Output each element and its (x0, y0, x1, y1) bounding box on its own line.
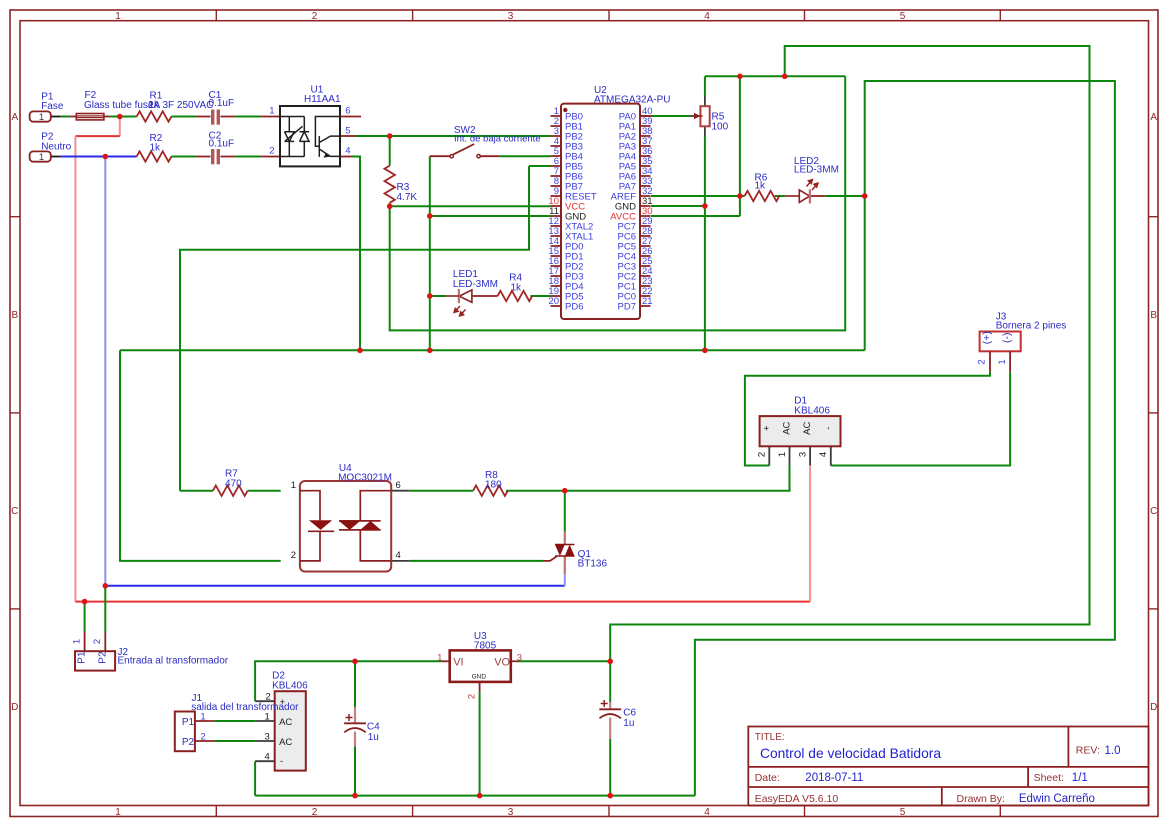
frame column ticks bottom (216, 806, 1000, 817)
svg-text:2: 2 (467, 694, 478, 699)
svg-text:B: B (1150, 310, 1157, 321)
resistor R4 (498, 273, 533, 302)
svg-text:180: 180 (485, 479, 502, 490)
fuse F2 (76, 114, 104, 120)
svg-text:20: 20 (548, 296, 559, 307)
svg-text:3: 3 (517, 652, 522, 663)
wire net U1pin5 to U2 PB2 (340, 135, 551, 137)
wire net SW2 to PB4 (480, 155, 550, 157)
U2 pin stubs (551, 116, 651, 306)
frame row letters right (1150, 112, 1157, 713)
LED2 (785, 156, 839, 204)
junction C6 bottom (607, 793, 613, 799)
svg-text:4: 4 (818, 452, 829, 457)
junction C4 bottom (352, 793, 358, 799)
svg-text:D: D (1150, 702, 1157, 713)
resistor R8 (473, 470, 508, 496)
svg-text:(-): (-) (1001, 332, 1013, 343)
svg-text:2: 2 (312, 807, 318, 818)
svg-text:1: 1 (269, 106, 274, 117)
svg-text:2018-07-11: 2018-07-11 (805, 772, 863, 784)
svg-text:Glass tube fuse: Glass tube fuse (84, 100, 154, 111)
svg-text:0.1uF: 0.1uF (209, 98, 235, 109)
svg-text:KBL406: KBL406 (794, 406, 830, 417)
svg-text:21: 21 (642, 296, 653, 307)
svg-text:4: 4 (265, 752, 270, 763)
svg-text:2: 2 (977, 359, 988, 364)
title block texts (755, 732, 1121, 805)
wire net U4 pin4 gate (391, 557, 556, 561)
svg-text:1: 1 (39, 112, 44, 123)
resistor R7 (213, 469, 248, 496)
svg-text:3: 3 (797, 452, 808, 457)
wire net GND left drop to U4 pin2 (120, 350, 281, 561)
svg-text:KBL406: KBL406 (272, 680, 308, 691)
svg-text:AC: AC (279, 717, 292, 728)
svg-text:P2: P2 (182, 737, 195, 748)
svg-text:470: 470 (225, 479, 242, 490)
wire net U3 VO to C6 and +5V riser (511, 661, 610, 795)
svg-text:Fase: Fase (41, 101, 64, 112)
svg-text:AC: AC (279, 737, 292, 748)
wire net D1 pin3 stub (809, 446, 811, 465)
svg-text:2: 2 (757, 452, 768, 457)
svg-text:Sheet:: Sheet: (1034, 772, 1064, 784)
junction LED1 (427, 293, 433, 299)
resistor R3 (385, 166, 418, 203)
frame column ticks top (216, 10, 1000, 21)
svg-text:Drawn By:: Drawn By: (957, 793, 1005, 805)
svg-text:100: 100 (712, 122, 729, 133)
svg-text:C: C (1150, 506, 1157, 517)
wire net R5 branch (651, 76, 705, 350)
svg-text:VO: VO (494, 657, 510, 669)
svg-text:1: 1 (115, 807, 121, 818)
wire net J3 pin1 to D1 pin4 (831, 372, 1010, 466)
svg-text:LED-3MM: LED-3MM (453, 279, 498, 290)
wire net C4 branch (354, 661, 356, 795)
wire net AREF R6 LED2 (651, 195, 865, 197)
svg-text:-: - (280, 756, 283, 767)
wire net GND right riser (695, 81, 1115, 796)
regulator U3 7805 (437, 631, 522, 699)
U1 pin stubs (340, 116, 361, 118)
wire net GND pin11 (430, 215, 551, 217)
junction GND rail x705 (702, 348, 708, 354)
bridge rectifier D2 KBL406 (265, 671, 309, 771)
wire net GND rail y350 (120, 349, 865, 351)
svg-text:4.7K: 4.7K (397, 192, 418, 203)
svg-text:4: 4 (396, 550, 401, 561)
label J1 (191, 693, 299, 713)
junction Neutro J2 (103, 583, 109, 589)
capacitor C1 (209, 90, 235, 125)
wire net D2 pin2 to U3 VI (255, 661, 450, 701)
wire net U3 GND pin2 (479, 682, 481, 796)
svg-text:2: 2 (200, 732, 205, 743)
svg-text:Entrada al transformador: Entrada al transformador (118, 656, 229, 667)
optocoupler U1 H11AA1 (269, 84, 361, 166)
svg-text:1k: 1k (511, 283, 523, 294)
svg-text:H11AA1: H11AA1 (304, 94, 341, 105)
connector J1 salida del transformador (175, 712, 206, 752)
wire net R8 to D1 pin1 (391, 446, 789, 490)
svg-text:(+): (+) (981, 331, 993, 344)
svg-text:AC: AC (802, 421, 813, 434)
potentiometer R5 (694, 106, 729, 132)
svg-text:2: 2 (291, 550, 296, 561)
svg-text:MOC3021M: MOC3021M (338, 472, 392, 483)
svg-text:1: 1 (291, 480, 296, 491)
frame row ticks right (1149, 217, 1159, 609)
wire net Q1 MT1 blue (564, 574, 566, 586)
title block (748, 727, 1148, 806)
svg-text:LED-3MM: LED-3MM (794, 165, 839, 176)
svg-text:1: 1 (39, 152, 44, 163)
resistor R1 (137, 91, 172, 122)
svg-text:AC: AC (782, 421, 793, 434)
wire net D2 pin4 drop (255, 761, 275, 795)
junction R3 bottom (387, 204, 393, 210)
capacitor C2 (209, 131, 235, 165)
junction GND rail x360 (357, 348, 363, 354)
svg-text:5: 5 (900, 807, 906, 818)
svg-text:4: 4 (704, 807, 710, 818)
svg-text:D: D (11, 702, 18, 713)
svg-text:1: 1 (997, 359, 1008, 364)
svg-text:4: 4 (345, 146, 350, 157)
wire net PA0 wiper (640, 115, 697, 117)
svg-text:6: 6 (396, 480, 401, 491)
frame column numbers bottom (115, 807, 906, 818)
svg-text:-: - (823, 427, 834, 430)
junction AREF x739 (737, 193, 743, 199)
svg-text:1k: 1k (149, 100, 161, 111)
svg-text:Int. de baja corriente: Int. de baja corriente (454, 134, 541, 145)
wire net Fase red drop to rail (75, 117, 810, 602)
svg-text:1k: 1k (755, 180, 767, 191)
junction U3 GND bottom (477, 793, 483, 799)
optotriac U4 MOC3021M (291, 463, 401, 572)
wire net SW2 left vertical (430, 156, 450, 350)
svg-text:A: A (11, 112, 18, 123)
wire net VCC top rail (610, 46, 1089, 661)
wire net Q1 MT2 (564, 491, 566, 532)
svg-text:1u: 1u (368, 732, 379, 743)
svg-text:EasyEDA V5.6.10: EasyEDA V5.6.10 (755, 793, 839, 805)
junction Fase J2 (82, 599, 88, 605)
junction GND rail x429 (427, 348, 433, 354)
svg-text:5: 5 (345, 125, 350, 136)
svg-text:1: 1 (265, 712, 270, 723)
svg-text:TITLE:: TITLE: (755, 732, 785, 743)
wire J2 pin2 drop green (104, 586, 106, 632)
svg-text:1: 1 (71, 639, 82, 644)
svg-text:7805: 7805 (474, 640, 497, 651)
svg-text:VI: VI (453, 657, 463, 669)
resistor R2 (137, 133, 172, 162)
svg-text:P1: P1 (182, 717, 195, 728)
junction R8 Q1 (562, 488, 568, 494)
wire J2 pin1 drop green (84, 602, 86, 632)
svg-text:2: 2 (269, 146, 274, 157)
U2 pin numbers (548, 106, 652, 307)
svg-text:C4: C4 (367, 722, 380, 733)
svg-text:PD7: PD7 (618, 302, 636, 313)
wire net R3 VCC link (390, 76, 846, 330)
junction VO C6 (607, 659, 613, 665)
junction P2 blue (103, 154, 109, 160)
capacitor C6 polarized (599, 700, 636, 739)
junction VCC rail x739 (737, 74, 743, 80)
junction LED2 right (862, 193, 868, 199)
junction U1pin5 net (387, 133, 393, 139)
svg-text:1.0: 1.0 (1105, 745, 1121, 757)
svg-text:4: 4 (704, 11, 710, 22)
svg-text:1: 1 (437, 652, 442, 663)
bridge rectifier D1 KBL406 (757, 396, 841, 457)
junction GND pin11 (427, 213, 433, 219)
wire net GND bottom rail (255, 795, 695, 797)
svg-text:Date:: Date: (755, 772, 780, 784)
svg-text:C: C (11, 506, 18, 517)
svg-text:Edwin Carreño: Edwin Carreño (1019, 793, 1095, 805)
wire net J1 P1 to D2 pin1 (195, 720, 275, 722)
microcontroller U2 ATMEGA32A-PU (548, 85, 670, 319)
connector P1 (30, 92, 64, 124)
svg-text:1: 1 (777, 452, 788, 457)
svg-text:B: B (11, 310, 18, 321)
frame row letters left (11, 112, 18, 713)
svg-text:Bornera 2 pines: Bornera 2 pines (996, 321, 1067, 332)
wire net Neutro blue drop (105, 157, 565, 586)
svg-text:BT136: BT136 (578, 559, 608, 570)
wire net U1pin4 to GND rail (340, 157, 360, 351)
svg-text:C6: C6 (623, 708, 636, 719)
svg-text:1u: 1u (623, 718, 634, 729)
wire net J3 pin2 to D1 pin2 (745, 372, 990, 466)
connector J2 Entrada al transformador (71, 632, 228, 671)
svg-text:1/1: 1/1 (1072, 772, 1088, 784)
junction VCC rail x784 (782, 74, 788, 80)
svg-text:0.1uF: 0.1uF (209, 138, 235, 149)
U1 pin numbers (269, 106, 350, 157)
capacitor C4 polarized (344, 707, 380, 746)
switch SW2 (450, 125, 541, 158)
wire net Fase P1 row (51, 116, 280, 118)
svg-text:3: 3 (508, 11, 514, 22)
LED1 (446, 269, 498, 316)
resistor R6 (745, 172, 780, 201)
U2 pin names (565, 112, 636, 313)
wire net Neutro P2 row (51, 156, 280, 158)
svg-text:5: 5 (900, 11, 906, 22)
svg-text:Neutro: Neutro (41, 141, 71, 152)
connector P2 (30, 131, 72, 163)
svg-text:+: + (761, 425, 772, 431)
junction C4 top (352, 659, 358, 665)
svg-text:REV:: REV: (1076, 745, 1100, 757)
svg-text:3: 3 (508, 807, 514, 818)
svg-text:A: A (1150, 112, 1157, 123)
svg-text:3: 3 (265, 732, 270, 743)
frame row ticks left (10, 217, 20, 609)
wire net LED1 R4 PD5 (430, 295, 551, 297)
svg-text:P1: P1 (77, 651, 88, 664)
frame column numbers top (115, 11, 906, 22)
svg-text:2: 2 (92, 639, 103, 644)
svg-text:PD6: PD6 (565, 302, 583, 313)
svg-text:2: 2 (312, 11, 318, 22)
svg-text:GND: GND (472, 673, 487, 680)
svg-text:P2: P2 (97, 651, 108, 664)
connector J3 Bornera 2 pines (977, 312, 1067, 372)
svg-text:1: 1 (200, 712, 205, 723)
svg-text:ATMEGA32A-PU: ATMEGA32A-PU (594, 95, 671, 106)
svg-text:6: 6 (345, 106, 350, 117)
svg-text:Control de velocidad Batidora: Control de velocidad Batidora (760, 746, 941, 761)
svg-text:1: 1 (115, 11, 121, 22)
svg-text:salida del transformador: salida del transformador (191, 702, 299, 713)
wire net PB5 to R7 (180, 166, 551, 491)
triac Q1 BT136 (555, 532, 608, 574)
wire net J1 P2 to D2 pin3 (195, 740, 275, 742)
junction GND pin31 (702, 203, 708, 209)
junction F2-R1 (117, 114, 123, 120)
svg-text:1k: 1k (150, 143, 162, 154)
